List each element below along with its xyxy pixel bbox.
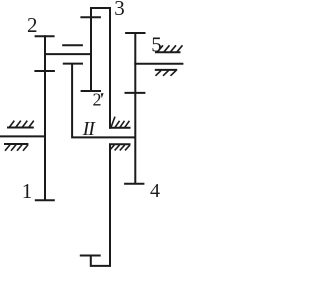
ring gear lower leg + bottom rim + inner leg <box>91 144 110 266</box>
ring gear 3 top rim <box>90 7 111 9</box>
ground support left lower <box>4 144 28 151</box>
left frame shaft horizontal <box>0 135 46 137</box>
ground support shaft 5 upper <box>155 45 183 52</box>
ring gear 3 left leg (shaft of gear 3) <box>90 7 92 92</box>
ring gear 3 right leg <box>109 7 111 129</box>
svg-text:3: 3 <box>114 0 125 20</box>
gear 4 tick <box>124 183 144 185</box>
ground support at ring gear lower leg <box>109 144 131 150</box>
svg-text:2: 2 <box>27 13 38 37</box>
gear 5 top tick <box>125 32 145 34</box>
gear 2' tick <box>81 90 101 92</box>
svg-text:1: 1 <box>22 179 33 203</box>
gear 1 tick <box>35 199 55 201</box>
shaft 4-5 vertical <box>134 33 136 184</box>
shaft 5 horizontal <box>134 63 183 65</box>
svg-text:4: 4 <box>150 180 160 202</box>
gear 2 mesh tick A <box>62 44 83 46</box>
gear 3 internal tooth tick <box>80 16 101 18</box>
ground support at ring gear upper leg <box>109 117 131 129</box>
svg-text:2: 2 <box>93 90 102 110</box>
bottom ring tooth tick <box>80 255 101 257</box>
gear tick B on carrier arm <box>63 63 83 65</box>
svg-text:5: 5 <box>151 33 162 57</box>
gear 2 tick <box>35 35 55 37</box>
ground support shaft 5 lower <box>155 70 177 76</box>
gear tick mid on shaft 4-5 <box>125 92 146 94</box>
mid horizontal link <box>44 53 92 55</box>
ground support left upper <box>7 121 34 128</box>
second gear tick on shaft 1-2 <box>34 70 55 72</box>
carrier II arm: vertical + horizontal <box>72 64 135 138</box>
shaft 1-2 vertical <box>44 35 46 201</box>
